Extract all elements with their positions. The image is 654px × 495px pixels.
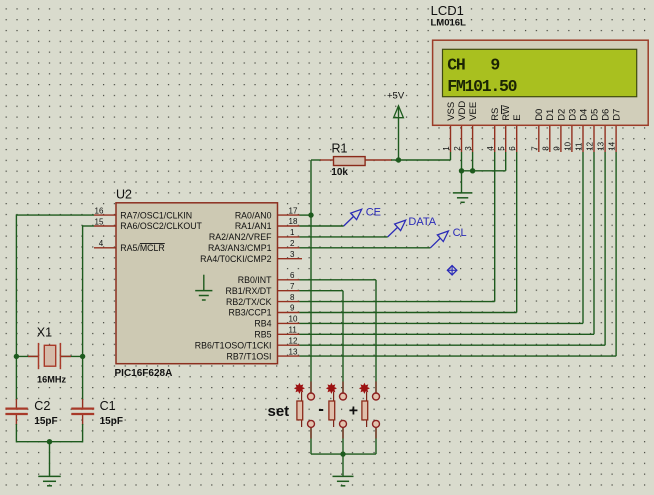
crystal X1 body: [44, 345, 55, 366]
svg-text:LM016L: LM016L: [431, 17, 467, 28]
svg-text:D5: D5: [589, 109, 600, 121]
svg-text:14: 14: [608, 141, 617, 150]
U2 pin stub 1: [278, 236, 300, 238]
svg-text:D4: D4: [578, 109, 589, 121]
pushbutton plus top terminal: [373, 393, 380, 400]
junction ground bus left: [47, 439, 52, 444]
pushbutton set plunger bar: [297, 401, 303, 420]
svg-text:6: 6: [290, 271, 295, 280]
junction VDD/RW node: [459, 168, 464, 173]
svg-text:+5V: +5V: [387, 90, 405, 101]
wire: R1 right lead to +5V node: [365, 159, 392, 161]
svg-text:10k: 10k: [331, 167, 348, 178]
U2 pin stub 11: [278, 333, 300, 335]
svg-text:8: 8: [541, 146, 550, 151]
power symbol +5V: [394, 106, 404, 118]
pushbutton set actuator star: [295, 384, 304, 393]
svg-text:1: 1: [290, 228, 295, 237]
svg-text:RB2/TX/CK: RB2/TX/CK: [226, 297, 272, 307]
capacitor C2 bottom plate: [5, 413, 27, 415]
pushbutton plus bottom terminal pin: [375, 427, 377, 439]
svg-text:DATA: DATA: [408, 216, 436, 228]
wire: C1 bottom to ground bus: [82, 414, 84, 425]
svg-text:set: set: [268, 403, 290, 420]
svg-text:X1: X1: [37, 325, 52, 339]
svg-text:RA5/MCLR: RA5/MCLR: [120, 243, 165, 253]
svg-text:RW: RW: [501, 105, 512, 121]
wire: chip pin6 RB0 to plus button: [300, 279, 377, 281]
wire: button ground stem: [342, 454, 344, 476]
wire: C2 bottom to ground bus: [15, 414, 17, 425]
svg-text:9: 9: [552, 146, 561, 151]
pushbutton plus actuator star: [360, 384, 369, 393]
svg-text:2: 2: [453, 146, 462, 151]
wire: +5V node to LCD pin1 VSS: [399, 159, 451, 161]
svg-text:LCD1: LCD1: [431, 3, 464, 18]
U2 pin stub 15: [94, 225, 116, 227]
wire: chip pin12 RB6 to LCD D6: [300, 344, 606, 346]
junction OSC1/X1/C2: [14, 354, 19, 359]
U2 pin stub 16: [94, 214, 116, 216]
U2 pin stub 6: [278, 279, 300, 281]
LCD1 pin stub 13: [604, 125, 606, 152]
svg-text:18: 18: [289, 217, 298, 226]
U2 pin stub 3: [278, 258, 303, 260]
svg-text:RB3/CCP1: RB3/CCP1: [228, 308, 271, 318]
LCD1 pin stub 2: [461, 125, 463, 152]
svg-text:10: 10: [289, 315, 298, 324]
svg-text:3: 3: [290, 250, 295, 259]
wire: minus button to ground bus: [342, 428, 344, 455]
U2 pin stub 8: [278, 301, 300, 303]
ground symbol bottom-left: [38, 475, 61, 477]
pushbutton set plunger stem: [301, 392, 303, 401]
wire: ground bus under C2/C1: [16, 441, 82, 443]
svg-text:7: 7: [530, 146, 539, 151]
LCD1 pin stub 5: [505, 125, 507, 152]
LCD1 pin stub 3: [472, 125, 474, 152]
svg-text:D2: D2: [556, 109, 567, 121]
LCD1 pin stub 9: [560, 125, 562, 152]
svg-text:U2: U2: [116, 188, 132, 202]
svg-text:CH 9: CH 9: [447, 55, 499, 74]
svg-text:6: 6: [508, 146, 517, 151]
wire: chip pin2 RA3 to CL terminal: [300, 247, 431, 249]
wire: LCD pin5 RW to VEE/ground node: [462, 170, 506, 172]
wire: button ground bus: [311, 453, 376, 455]
svg-text:11: 11: [575, 142, 584, 151]
svg-text:VSS: VSS: [446, 102, 457, 121]
svg-text:RB4: RB4: [254, 319, 271, 329]
terminal arrow CL: [430, 238, 440, 248]
LCD1 pin stub 6: [516, 125, 518, 152]
U2 pin stub 12: [278, 344, 300, 346]
U2 pin stub 9: [278, 312, 300, 314]
wire: chip pin18 RA1 to CE terminal: [300, 225, 344, 227]
pushbutton set bottom terminal: [308, 420, 315, 427]
pushbutton minus top terminal: [340, 393, 347, 400]
svg-text:D3: D3: [567, 109, 578, 121]
svg-text:RB1/RX/DT: RB1/RX/DT: [226, 286, 273, 296]
capacitor C2 top plate: [5, 408, 27, 410]
svg-text:C1: C1: [100, 399, 116, 413]
wire: LCD pin3 VEE down to node: [472, 152, 474, 171]
svg-text:1: 1: [442, 146, 451, 151]
U2 pin stub 7: [278, 290, 300, 292]
svg-text:10: 10: [563, 141, 572, 150]
LCD1 pin stub 10: [571, 125, 573, 152]
wire: chip pin8 RB2 to LCD RS: [300, 301, 495, 303]
svg-text:D1: D1: [545, 109, 556, 121]
svg-text:RS: RS: [490, 108, 501, 121]
svg-text:RA0/AN0: RA0/AN0: [235, 210, 272, 220]
svg-text:-: -: [318, 399, 324, 418]
pushbutton plus bottom terminal: [373, 420, 380, 427]
pushbutton plus plunger bar: [362, 401, 368, 420]
U2 pin stub 18: [278, 225, 300, 227]
wire: chip pin16 RA7/OSC1 to crystal X1 left, net OSC1: [16, 214, 94, 216]
wire: +5V power stem: [398, 106, 400, 160]
pushbutton minus plunger stem: [333, 392, 335, 401]
svg-text:12: 12: [289, 336, 298, 345]
svg-text:D0: D0: [534, 109, 545, 121]
U2 pin stub 4: [94, 247, 116, 249]
svg-text:3: 3: [464, 146, 473, 151]
svg-text:5: 5: [497, 146, 506, 151]
pushbutton set top terminal pin: [310, 382, 312, 394]
wire: chip pin11 RB5 to LCD D5: [300, 333, 595, 335]
svg-text:VEE: VEE: [468, 102, 479, 121]
svg-text:12: 12: [586, 141, 595, 150]
svg-text:17: 17: [289, 206, 298, 215]
pushbutton minus bottom terminal pin: [342, 427, 344, 439]
U2 pin stub 2: [278, 247, 300, 249]
svg-text:D7: D7: [612, 109, 623, 121]
wire: chip pin17 RA0 to R1 node: [300, 214, 312, 216]
U2 pin stub 17: [278, 214, 300, 216]
svg-text:RB0/INT: RB0/INT: [238, 275, 272, 285]
svg-text:RB6/T1OSO/T1CKI: RB6/T1OSO/T1CKI: [195, 340, 272, 350]
LCD1 pin stub 4: [494, 125, 496, 152]
svg-text:15pF: 15pF: [34, 416, 57, 427]
svg-text:8: 8: [290, 293, 295, 302]
U2 pin stub 10: [278, 322, 300, 324]
LCD1 pin stub 8: [549, 125, 551, 152]
svg-text:RB7/T1OSI: RB7/T1OSI: [227, 351, 272, 361]
terminal arrow DATA: [388, 227, 398, 237]
svg-text:9: 9: [290, 304, 295, 313]
pushbutton minus actuator star: [327, 384, 336, 393]
wire: chip pin10 RB4 to LCD D4: [300, 322, 584, 324]
svg-text:13: 13: [289, 347, 298, 356]
crystal X1 left electrode: [38, 343, 40, 369]
LCD display LCD1 LM016L body: [433, 40, 649, 125]
svg-text:4: 4: [99, 239, 104, 248]
pushbutton plus plunger stem: [366, 392, 368, 401]
wire: ground stem bottom-left: [49, 442, 51, 476]
svg-text:RA4/T0CKI/CMP2: RA4/T0CKI/CMP2: [200, 254, 271, 264]
svg-text:15: 15: [95, 217, 104, 226]
svg-text:RA6/OSC2/CLKOUT: RA6/OSC2/CLKOUT: [120, 221, 202, 231]
ground symbol inside U2: [203, 275, 205, 291]
pushbutton minus plunger bar: [329, 401, 335, 420]
svg-text:15pF: 15pF: [100, 416, 123, 427]
svg-text:7: 7: [290, 282, 295, 291]
svg-text:13: 13: [597, 141, 606, 150]
wire: chip pin9 RB3 to LCD E: [300, 312, 517, 314]
U2 pin stub 13: [278, 355, 300, 357]
pushbutton plus top terminal pin: [375, 382, 377, 394]
LCD1 pin stub 14: [615, 125, 617, 152]
svg-text:16: 16: [95, 207, 104, 216]
junction OSC2/X1/C1: [80, 354, 85, 359]
wire: LCD pin2 VDD down to ground: [461, 152, 463, 193]
resistor R1 body: [334, 157, 366, 166]
svg-text:FM101.50: FM101.50: [447, 77, 516, 96]
svg-text:E: E: [512, 114, 523, 120]
wire: chip pin7 RB1 to minus button: [300, 290, 344, 292]
LCD1 pin stub 7: [538, 125, 540, 152]
LCD1 pin stub 1: [450, 125, 452, 152]
svg-text:VDD: VDD: [457, 101, 468, 121]
pushbutton set bottom terminal pin: [310, 427, 312, 439]
pushbutton set top terminal: [308, 393, 315, 400]
capacitor C1 top plate: [71, 408, 94, 410]
wire: chip pin1 RA2 to DATA terminal: [300, 236, 388, 238]
svg-text:4: 4: [486, 146, 495, 151]
svg-text:16MHz: 16MHz: [37, 374, 67, 384]
junction RA0/R1/set: [308, 212, 313, 217]
capacitor C1 bottom plate: [71, 413, 94, 415]
wire: OSC1 node down to capacitor C2: [15, 356, 17, 400]
junction VEE node: [470, 168, 475, 173]
svg-text:2: 2: [290, 239, 295, 248]
LCD green screen: [443, 49, 637, 96]
wire: crystal left lead: [16, 355, 38, 357]
wire: R1 left lead down to chip pin17 RA0 and set button: [310, 160, 312, 393]
pushbutton minus bottom terminal: [340, 420, 347, 427]
svg-text:+: +: [349, 403, 358, 420]
svg-text:CE: CE: [366, 206, 381, 218]
wire: plus button to ground bus: [375, 428, 377, 455]
svg-text:CL: CL: [453, 227, 467, 239]
svg-text:RA1/AN1: RA1/AN1: [235, 221, 272, 231]
microcontroller U2 PIC16F628A body: [116, 203, 278, 364]
wire: chip pin13 RB7 to LCD D7: [300, 355, 617, 357]
wire: crystal right lead: [60, 355, 82, 357]
pushbutton minus top terminal pin: [342, 382, 344, 394]
junction +5V/R1/VSS: [396, 157, 401, 162]
svg-text:R1: R1: [332, 141, 348, 155]
svg-text:C2: C2: [34, 399, 50, 413]
ground symbol under buttons: [333, 475, 354, 477]
svg-text:RA2/AN2/VREF: RA2/AN2/VREF: [209, 232, 272, 242]
terminal arrow CE: [344, 216, 354, 226]
svg-text:RA7/OSC1/CLKIN: RA7/OSC1/CLKIN: [120, 210, 192, 220]
svg-text:RA3/AN3/CMP1: RA3/AN3/CMP1: [208, 243, 272, 253]
wire: chip pin15 RA6/OSC2 to crystal X1 right, net OSC2: [83, 225, 94, 227]
LCD1 pin stub 12: [593, 125, 595, 152]
wire: OSC2 node down to capacitor C1: [82, 356, 84, 400]
svg-text:PIC16F628A: PIC16F628A: [115, 368, 173, 379]
ground symbol under LCD VDD/VEE: [453, 192, 473, 194]
crystal X1 right electrode: [59, 343, 61, 369]
junction button ground bus: [340, 451, 345, 456]
svg-text:D6: D6: [601, 109, 612, 121]
svg-text:11: 11: [289, 326, 298, 335]
origin marker blue diamond: [447, 266, 456, 275]
svg-text:RB5: RB5: [254, 330, 271, 340]
wire: set button to ground bus: [310, 428, 312, 455]
LCD1 pin stub 11: [582, 125, 584, 152]
